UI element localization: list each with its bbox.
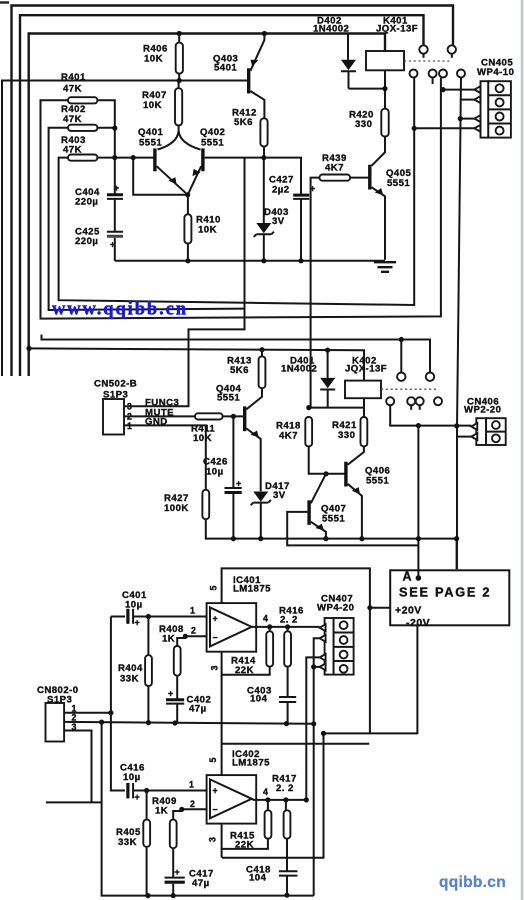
wire: R405 leads xyxy=(146,791,148,896)
svg-text:4: 4 xyxy=(263,614,268,624)
capacitor C404 xyxy=(75,158,123,208)
wire: R427 bottom / mute ground bus to SEE PAGE2 xyxy=(206,519,457,569)
svg-text:+: + xyxy=(175,867,180,877)
svg-text:−: − xyxy=(213,805,218,815)
svg-text:3: 3 xyxy=(208,837,218,842)
capacitor C418 xyxy=(246,800,298,895)
node: output wire taps xyxy=(416,423,421,428)
wire: R415 feedback to pin3 xyxy=(222,800,268,849)
wire: CN407 pin3 drop to IC402 output xyxy=(306,657,319,800)
diode D401 xyxy=(281,350,335,408)
svg-text:1K: 1K xyxy=(155,806,168,817)
resistor R408 xyxy=(159,624,184,676)
relay K402 contact circles top xyxy=(397,373,434,381)
zener D403 xyxy=(254,158,289,261)
wire: amp1 ground bus xyxy=(64,722,314,724)
wire: output IC402 xyxy=(252,799,307,800)
node: bus 538 taps xyxy=(231,536,236,541)
resistor R410 xyxy=(184,214,220,243)
resistor R407 xyxy=(142,88,182,125)
wire: input line down to C416 xyxy=(111,617,125,791)
capacitor C403 xyxy=(247,627,296,724)
wire: R408 jog to pin2 xyxy=(177,636,185,646)
resistor R413 xyxy=(227,356,265,389)
svg-text:220µ: 220µ xyxy=(75,197,98,208)
svg-text:104: 104 xyxy=(249,873,267,884)
svg-text:+: + xyxy=(213,786,218,796)
wire: bus D to K402 coil xyxy=(29,348,364,380)
svg-text:SEE PAGE 2: SEE PAGE 2 xyxy=(399,585,491,600)
resistor R416 xyxy=(279,606,304,667)
svg-text:1: 1 xyxy=(189,780,194,790)
svg-text:4K7: 4K7 xyxy=(279,431,298,442)
svg-text:1: 1 xyxy=(127,421,132,431)
wire: long drop from contact 461 to SEE PAGE2 xyxy=(457,78,461,570)
resistor R417 xyxy=(272,774,297,839)
resistor R415 xyxy=(230,810,271,850)
svg-text:5K6: 5K6 xyxy=(230,365,249,376)
wire: R410 leads xyxy=(187,195,189,261)
svg-text:5551: 5551 xyxy=(217,393,240,404)
wire: FUNC3 pin3 xyxy=(124,158,245,407)
wire: pin2 IC402 xyxy=(182,808,207,810)
op-amp IC401 xyxy=(207,575,272,671)
svg-text:1N4002: 1N4002 xyxy=(313,24,349,35)
svg-text:10K: 10K xyxy=(144,54,163,65)
svg-text:2. 2: 2. 2 xyxy=(276,783,294,794)
svg-text:10µ: 10µ xyxy=(206,467,224,478)
svg-text:+20V: +20V xyxy=(395,604,422,616)
svg-text:CN502-B: CN502-B xyxy=(94,379,137,390)
wire: border 3 / supply rail to relay K401 coil xyxy=(29,34,385,377)
dashed actuator line K401 xyxy=(404,60,452,62)
resistor R420 xyxy=(349,109,389,137)
wire: R402 left to bus B then FUNC3 feeder xyxy=(49,128,245,310)
wire: CN406 pin2 jog xyxy=(457,436,471,438)
node: top rail junctions xyxy=(177,31,182,36)
resistor R409 xyxy=(152,796,177,848)
capacitor C427 xyxy=(269,175,315,261)
wire: border 2 xyxy=(20,15,424,376)
transistor Q405 xyxy=(368,165,411,260)
node: R401/R402 junction xyxy=(112,126,117,131)
svg-text:10K: 10K xyxy=(143,100,162,111)
wire: CN405 pin2 xyxy=(461,99,475,101)
connector CN502-B xyxy=(94,379,137,435)
svg-text:qqibb.cn: qqibb.cn xyxy=(439,874,506,891)
resistor R439 xyxy=(320,153,351,181)
svg-text:JQX-13F: JQX-13F xyxy=(345,364,387,375)
svg-text:3V: 3V xyxy=(273,490,286,501)
wire: branch to contact 401 xyxy=(400,340,402,373)
connector CN406 xyxy=(464,397,506,446)
op-amp IC402 xyxy=(207,749,271,842)
wire: IC402 box top xyxy=(222,743,370,745)
svg-text:47µ: 47µ xyxy=(192,878,210,889)
relay K402 coil xyxy=(345,356,387,408)
node: emitter node xyxy=(185,192,190,197)
transistor Q403 xyxy=(213,34,264,119)
relay K401 contact circles row 2 xyxy=(410,70,466,85)
svg-text:10K: 10K xyxy=(193,433,212,444)
svg-text:5551: 5551 xyxy=(366,476,389,487)
wire: +20V feed xyxy=(370,607,390,609)
wire: R402 right to node xyxy=(97,127,114,129)
wire: R404 leads xyxy=(147,617,149,723)
svg-text:5K6: 5K6 xyxy=(234,117,253,128)
wire: K402 bottom tie xyxy=(309,408,364,417)
svg-text:WP2-20: WP2-20 xyxy=(464,405,501,416)
connector CN407 xyxy=(317,594,354,675)
wire: CN405 pin3 xyxy=(460,118,474,120)
svg-text:LM1875: LM1875 xyxy=(232,758,270,769)
resistor R402 xyxy=(61,104,97,131)
svg-text:3: 3 xyxy=(127,402,132,412)
svg-text:47K: 47K xyxy=(63,84,82,95)
scan right edge xyxy=(521,0,524,900)
relay K401 contact circles top row xyxy=(419,45,456,58)
wire: CN802 pin1 to input xyxy=(64,712,111,714)
wire: R414 feedback to pin3 xyxy=(222,627,270,675)
wire: branch down to emitter node xyxy=(133,158,188,195)
svg-text:5401: 5401 xyxy=(214,63,237,74)
resistor R421 xyxy=(332,417,367,446)
svg-text:1N4002: 1N4002 xyxy=(281,364,317,375)
svg-text:WP4-20: WP4-20 xyxy=(317,603,354,614)
wire: bus E to K402 contacts xyxy=(42,335,431,373)
node: base row junctions xyxy=(112,155,117,160)
svg-text:330: 330 xyxy=(355,119,372,130)
svg-text:3V: 3V xyxy=(272,216,285,227)
svg-text:Q401: Q401 xyxy=(138,127,163,138)
relay K402 contact circles row 2 xyxy=(386,397,442,410)
svg-text:5551: 5551 xyxy=(201,138,224,149)
wire: MUTE pin2 to R411 xyxy=(124,415,195,417)
capacitor C401 xyxy=(111,590,147,628)
svg-text:+: + xyxy=(110,240,115,250)
relay K401 coil xyxy=(366,16,418,89)
svg-text:1: 1 xyxy=(190,606,195,616)
wire: R409 jog to pin2 xyxy=(173,809,182,819)
svg-text:5551: 5551 xyxy=(387,178,410,189)
node: CN405 pin taps xyxy=(440,87,445,92)
svg-text:JQX-13F: JQX-13F xyxy=(376,24,418,35)
wire: left spine down xyxy=(221,675,223,775)
svg-text:33K: 33K xyxy=(120,674,139,685)
wire: R413 leads to Q404 collector xyxy=(246,350,262,410)
scan top-left mark xyxy=(0,1,9,3)
wire: -20V drop to amp rail xyxy=(222,625,417,857)
wire: base rail y80 to Q403 xyxy=(2,81,249,377)
wire: stub at 802 xyxy=(46,801,92,803)
svg-text:+: + xyxy=(114,183,119,193)
wire: R418 bottom to Q406 base xyxy=(309,446,346,473)
transistor Q406 xyxy=(344,462,390,539)
see page 2 box xyxy=(390,570,509,629)
svg-text:33K: 33K xyxy=(118,837,137,848)
zener D417 xyxy=(251,481,290,539)
svg-text:100K: 100K xyxy=(164,503,189,514)
svg-text:A: A xyxy=(403,570,412,584)
wire: input node to pin1 IC402 xyxy=(133,790,207,792)
resistor R427 xyxy=(164,490,209,519)
diode D402 xyxy=(313,16,356,89)
wire: D402/K401 bottom tie xyxy=(349,89,386,109)
svg-text:+: + xyxy=(213,614,218,624)
svg-text:Q402: Q402 xyxy=(200,127,225,138)
wire: CN405 pin4 xyxy=(414,127,474,129)
wire: CN802 pin3 drop xyxy=(64,731,102,803)
wire: R401 left to bus C up to relay contact xyxy=(41,78,441,319)
svg-text:4K7: 4K7 xyxy=(325,163,344,174)
svg-text:+: + xyxy=(236,479,241,489)
resistor R405 xyxy=(116,820,150,848)
resistor R403 xyxy=(61,135,97,161)
svg-text:5551: 5551 xyxy=(322,514,345,525)
transistor Q401 xyxy=(138,127,188,195)
connector CN802-0 xyxy=(37,685,79,742)
transistor Q402 xyxy=(188,127,226,195)
wire: input node to pin1 xyxy=(133,616,207,618)
wire: CN802 pin2 ground drop xyxy=(102,722,314,896)
wire: R403 left to bus A up to relay contact xyxy=(59,78,415,305)
wire: GND pin1 to R427 xyxy=(124,425,206,489)
svg-text:10K: 10K xyxy=(198,225,217,236)
resistor R404 xyxy=(118,655,152,686)
wire: left spine bottom xyxy=(221,849,223,858)
svg-text:R404: R404 xyxy=(118,663,143,674)
wire: R406 leads xyxy=(178,34,180,81)
svg-text:−: − xyxy=(213,633,218,643)
svg-text:+: + xyxy=(135,618,140,628)
wire: top section ground bus xyxy=(115,260,385,262)
capacitor C417 xyxy=(165,848,214,895)
connector CN405 xyxy=(474,58,514,138)
svg-text:1K: 1K xyxy=(162,634,175,645)
svg-text:GND: GND xyxy=(145,416,168,427)
svg-text:3: 3 xyxy=(210,666,220,671)
capacitor C416 xyxy=(120,763,145,803)
resistor R418 xyxy=(276,417,312,446)
resistor R414 xyxy=(231,631,273,676)
wire: long drop 418 to A marker xyxy=(417,426,419,579)
svg-text:2. 2: 2. 2 xyxy=(280,615,298,626)
svg-text:47K: 47K xyxy=(63,114,82,125)
svg-text:4: 4 xyxy=(263,787,268,797)
wire: +V top rail IC401 xyxy=(222,568,370,733)
ground symbol xyxy=(374,262,396,272)
svg-text:5551: 5551 xyxy=(139,138,162,149)
wire: CN405 pin1 xyxy=(443,89,474,91)
wire: R412 bottom xyxy=(263,147,265,158)
dashed actuator line K402 xyxy=(381,388,438,390)
resistor R412 xyxy=(232,108,268,147)
resistor R411 xyxy=(191,413,223,444)
svg-text:10µ: 10µ xyxy=(123,772,141,783)
wire: R421 to Q406 collector xyxy=(348,446,364,464)
wire: R401 right down to node xyxy=(97,100,114,157)
svg-text:LM1875: LM1875 xyxy=(233,584,271,595)
wire: R407 leads, split to Q401/Q402 collectors xyxy=(158,81,201,150)
wire: output pin4 to CN407 pin1 xyxy=(252,626,320,628)
svg-text:www.qqibb.cn: www.qqibb.cn xyxy=(52,300,188,320)
svg-text:2: 2 xyxy=(190,799,195,809)
capacitor C425 xyxy=(75,199,123,261)
svg-text:330: 330 xyxy=(338,430,355,441)
wire: R411 to Q404 base xyxy=(223,415,245,417)
wire: R439 left to C427 and long drop to R418 xyxy=(311,178,320,408)
wire: CN407 pin2/pin4 to speaker drop xyxy=(314,638,320,895)
resistor R406 xyxy=(143,43,183,74)
svg-text:104: 104 xyxy=(250,694,268,705)
svg-text:5: 5 xyxy=(209,586,219,591)
capacitor C402 xyxy=(166,676,211,723)
resistor R401 xyxy=(61,72,97,103)
capacitor C426 xyxy=(203,416,242,538)
node: ground bus junctions xyxy=(185,258,190,263)
svg-text:47µ: 47µ xyxy=(189,704,207,715)
svg-text:2: 2 xyxy=(191,626,196,636)
wire: outer border top xyxy=(12,6,454,377)
svg-text:220µ: 220µ xyxy=(75,236,98,247)
transistor Q404 xyxy=(216,384,262,492)
node: bus D taps xyxy=(26,346,31,351)
svg-text:2µ2: 2µ2 xyxy=(272,185,290,196)
wire: R420 to Q405 collector xyxy=(372,137,385,166)
svg-text:+: + xyxy=(135,792,140,802)
wire: R403 right to Q401 base xyxy=(97,157,154,159)
wire: Q407 base to bus 545 xyxy=(287,512,418,546)
svg-text:5: 5 xyxy=(208,758,218,763)
svg-text:WP4-10: WP4-10 xyxy=(477,67,514,78)
svg-text:+: + xyxy=(168,689,173,699)
wire: Q402 base row to C427/D403 node xyxy=(205,158,301,195)
wire: R439 right to Q405 base xyxy=(350,177,370,179)
wire: pin2 xyxy=(185,635,206,637)
transistor Q407 xyxy=(307,474,346,539)
wire: contact 390 to CN406 pin1 xyxy=(390,405,471,425)
svg-text:R401: R401 xyxy=(61,72,86,83)
svg-text:2: 2 xyxy=(72,713,77,723)
